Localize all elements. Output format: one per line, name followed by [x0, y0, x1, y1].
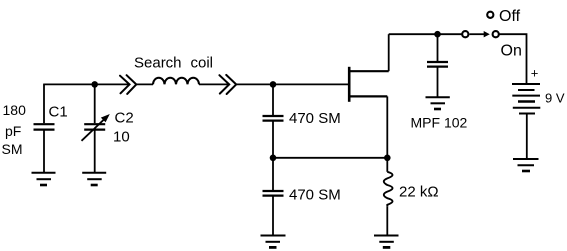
svg-text:C1: C1 [49, 104, 68, 121]
svg-text:C2: C2 [115, 109, 134, 126]
svg-text:Search: Search [134, 55, 182, 72]
wire: between coil and right connector [199, 83, 229, 85]
svg-text:On: On [501, 42, 522, 59]
svg-text:470 SM: 470 SM [289, 110, 341, 127]
wire: top rail to switch [389, 33, 462, 35]
connector chevrons (right pair) [219, 75, 236, 94]
capacitor (bypass, at MPF 102) [427, 34, 448, 97]
svg-text:Off: Off [499, 8, 521, 25]
node: junction dot at C2 top [91, 81, 98, 88]
node: junction dot at top of 470 branch [270, 81, 277, 88]
ground (under bypass cap) [426, 97, 450, 109]
ground (under C1) [32, 173, 56, 185]
svg-text:470 SM: 470 SM [289, 187, 341, 204]
node: junction dot middle-right [384, 155, 391, 162]
connector chevrons (left pair) [120, 75, 136, 94]
capacitor C1 [34, 84, 55, 172]
label 180 pF SM [2, 102, 27, 157]
ground (under C2) [82, 173, 106, 185]
battery B1 9V [512, 84, 540, 114]
transistor Q1 MPF 102 (JFET) [349, 67, 389, 102]
resistor R1 22 kΩ [384, 158, 393, 235]
svg-text:MPF 102: MPF 102 [411, 115, 468, 131]
inductor: search coil [153, 78, 199, 85]
svg-text:+: + [531, 66, 539, 81]
svg-text:coil: coil [191, 55, 214, 72]
svg-text:SM: SM [2, 141, 23, 157]
wire: right connector to gate of Q1 [236, 83, 348, 85]
capacitor 470 SM (lower) [263, 158, 284, 235]
svg-text:10: 10 [113, 129, 130, 146]
switch SW1 (On/Off) [462, 12, 499, 38]
wire: battery to ground [526, 114, 528, 159]
variable capacitor C2 [82, 84, 110, 172]
ground (under battery) [513, 159, 539, 171]
label Search coil [134, 55, 213, 72]
svg-text:pF: pF [5, 123, 21, 139]
svg-text:22 kΩ: 22 kΩ [399, 184, 439, 201]
svg-text:9 V: 9 V [545, 91, 565, 106]
ground (under R1) [374, 236, 399, 248]
node: junction dot at bypass cap top [434, 31, 441, 38]
node: junction dot middle-left [270, 155, 277, 162]
wire: between left connector and coil [136, 83, 153, 85]
wire: top-left horizontal from C1 to left connector [43, 83, 128, 85]
capacitor 470 SM (upper) [263, 84, 284, 158]
wire: switch to battery top [499, 34, 527, 84]
svg-text:180: 180 [3, 102, 27, 118]
ground (under lower 470 SM) [261, 236, 286, 248]
wire: middle horizontal between junctions [273, 157, 387, 159]
wire: source down to middle junction [386, 96, 388, 157]
wire: drain up to top rail [388, 34, 390, 71]
